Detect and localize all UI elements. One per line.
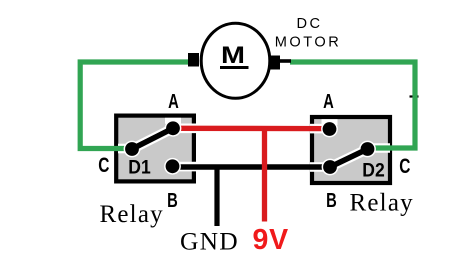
wire: green right loop (motor right stub to relay2 C) <box>410 95 419 97</box>
wire: red 9V horizontal (relay1 A to relay2 A) <box>176 126 327 132</box>
relay2 contact B <box>323 160 337 174</box>
wire: black stub at motor right terminal <box>279 59 291 63</box>
halo: white under relay1 switch arm <box>132 128 173 149</box>
svg-text:Relay: Relay <box>100 201 164 228</box>
svg-text:GND: GND <box>180 227 239 256</box>
halo: white outline under relay2 red lead <box>310 124 324 134</box>
motor M1 body <box>201 23 270 98</box>
motor M1 left terminal <box>188 53 199 67</box>
svg-text:B: B <box>167 189 178 212</box>
svg-text:C: C <box>399 153 410 177</box>
svg-text:D1: D1 <box>128 156 150 178</box>
wire: black GND horizontal (relay1 B to relay2 B) <box>172 164 331 169</box>
svg-text:9V: 9V <box>253 224 289 256</box>
halo: white outline under relay2 green lead <box>373 143 390 153</box>
halo: white outline under relay1 black lead <box>178 162 196 172</box>
motor M1 underline <box>220 66 249 69</box>
relay1 contact C <box>125 142 139 156</box>
wire: green left loop (motor left terminal to relay1 C) <box>80 62 189 149</box>
relay1 contact A <box>166 121 180 135</box>
svg-text:DC: DC <box>296 16 322 32</box>
halo: white gap above relay2 contact A <box>322 119 338 125</box>
svg-text:A: A <box>168 90 179 113</box>
halo: white under relay2 switch arm <box>330 149 368 167</box>
relay K1 body <box>116 116 194 182</box>
halo: white outline under relay2 black lead <box>310 162 325 172</box>
wire: black GND vertical drop <box>214 165 219 226</box>
svg-text:Relay: Relay <box>350 189 414 216</box>
halo: white outline under relay1 red lead <box>177 124 196 134</box>
relay K2 body <box>312 117 390 183</box>
halo: white gap above relay1 contact A <box>165 118 181 124</box>
svg-text:M: M <box>221 41 245 68</box>
svg-text:MOTOR: MOTOR <box>275 34 342 50</box>
svg-text:A: A <box>323 90 334 113</box>
relay1 switch arm C->A <box>132 128 173 149</box>
svg-text:B: B <box>326 189 337 212</box>
svg-text:D2: D2 <box>362 159 384 181</box>
halo: white outline under relay1 green lead <box>118 144 127 154</box>
motor M1 right terminal <box>267 56 280 70</box>
svg-text:C: C <box>98 152 109 176</box>
relay2 switch arm B->C <box>330 149 368 167</box>
wire: red 9V vertical drop <box>262 126 267 222</box>
relay2 contact C <box>361 142 375 156</box>
relay1 contact B <box>166 159 180 173</box>
relay2 contact A <box>323 122 337 136</box>
